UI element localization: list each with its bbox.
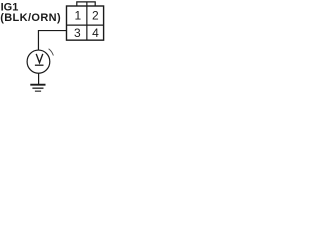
voltmeter underline (35, 64, 44, 66)
connector column divider (86, 2, 88, 40)
svg-text:1: 1 (74, 9, 81, 23)
ground bar 3 (35, 90, 41, 92)
wire from pin 3 to voltmeter (38, 31, 66, 51)
svg-text:4: 4 (92, 26, 99, 40)
stray arc mark upper-right of voltmeter (49, 49, 54, 56)
connector body (4-pin) (67, 6, 104, 40)
voltmeter body (27, 50, 50, 73)
svg-text:3: 3 (74, 26, 81, 40)
connector row divider (67, 24, 104, 26)
wire voltmeter to ground (38, 73, 40, 84)
svg-text:(BLK/ORN): (BLK/ORN) (0, 12, 61, 24)
voltmeter V glyph (36, 54, 43, 63)
ground bar 2 (32, 87, 43, 89)
ground bar 1 (30, 84, 45, 86)
connector lock tab (77, 2, 95, 6)
svg-text:2: 2 (92, 9, 99, 23)
